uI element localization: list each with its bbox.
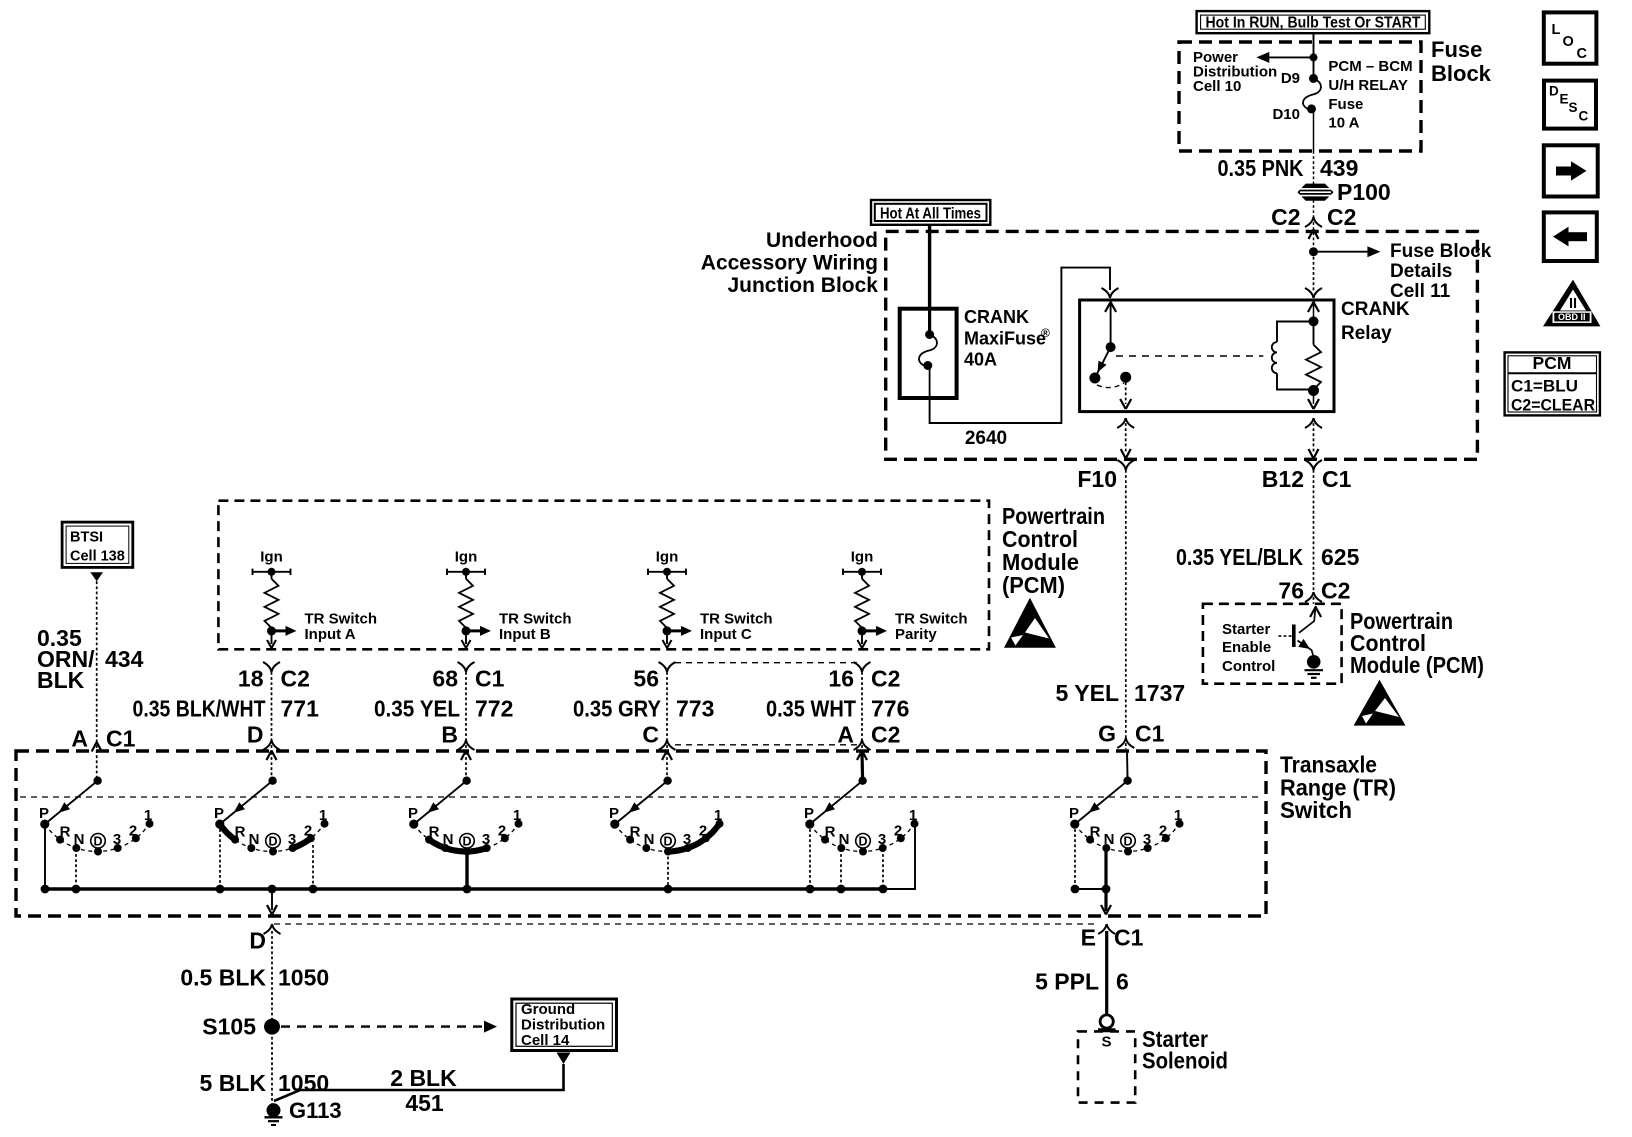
svg-text:C2: C2 bbox=[281, 666, 310, 692]
svg-text:Ign: Ign bbox=[455, 549, 478, 566]
label: Transaxle Range (TR) Switch bbox=[1280, 752, 1396, 824]
svg-text:R: R bbox=[235, 824, 246, 841]
svg-text:PCM – BCM: PCM – BCM bbox=[1328, 58, 1412, 75]
svg-text:Junction Block: Junction Block bbox=[727, 274, 878, 297]
svg-text:P: P bbox=[408, 805, 418, 822]
svg-text:N: N bbox=[644, 831, 655, 848]
svg-text:3: 3 bbox=[482, 831, 490, 848]
svg-text:Solenoid: Solenoid bbox=[1142, 1048, 1228, 1074]
label: Starter Enable Control bbox=[1222, 621, 1275, 675]
starter solenoid dashed box bbox=[1078, 1031, 1135, 1102]
dashed reference to Ground Distribution Cell 14 bbox=[281, 1021, 497, 1033]
svg-text:®: ® bbox=[1041, 326, 1050, 340]
svg-text:A: A bbox=[71, 726, 88, 752]
wire: 5 YEL 1737 F10 to G bbox=[1125, 470, 1127, 738]
relay: CRANK Relay box bbox=[1080, 300, 1334, 412]
label: Power Distribution Cell 10 bbox=[1193, 49, 1277, 95]
terminal letter D bbox=[247, 722, 264, 748]
svg-text:1: 1 bbox=[144, 807, 152, 824]
svg-text:451: 451 bbox=[405, 1090, 444, 1116]
label: 0.35 YEL/BLK 625 bbox=[1176, 544, 1360, 570]
PCM pull-up resistors dashed box bbox=[218, 501, 989, 650]
svg-text:D: D bbox=[663, 835, 672, 849]
pull-up resistor TR Switch Input Parity bbox=[843, 549, 887, 649]
label: TR Switch Input C bbox=[700, 611, 773, 644]
wire: relay switch output to F10 bbox=[1117, 377, 1134, 458]
svg-text:Enable: Enable bbox=[1222, 639, 1271, 656]
wire: 0.35 YEL/BLK 625 bbox=[1313, 470, 1315, 592]
label: Fuse Block Details Cell 11 bbox=[1390, 241, 1492, 302]
svg-text:Cell 10: Cell 10 bbox=[1193, 78, 1241, 95]
relay mechanical linkage (dashed) bbox=[1116, 355, 1263, 357]
label: 0.35 GRY 773 bbox=[573, 696, 714, 722]
svg-text:3: 3 bbox=[288, 831, 296, 848]
svg-text:773: 773 bbox=[676, 696, 714, 722]
svg-text:R: R bbox=[825, 824, 836, 841]
svg-text:N: N bbox=[74, 831, 85, 848]
icon: forward arrow bbox=[1544, 145, 1598, 196]
svg-text:A: A bbox=[837, 722, 854, 748]
TR switch wafer 3 (input B) bbox=[408, 777, 523, 894]
svg-text:2640: 2640 bbox=[965, 428, 1007, 449]
ground G113 bbox=[265, 1098, 342, 1125]
label: Powertrain Control Module (PCM) right bbox=[1350, 608, 1484, 678]
svg-text:N: N bbox=[249, 831, 260, 848]
TR switch wafer 6 (starter contact) bbox=[1069, 752, 1184, 915]
svg-text:1: 1 bbox=[319, 807, 327, 824]
svg-text:1: 1 bbox=[1174, 807, 1182, 824]
svg-text:0.35 YEL: 0.35 YEL bbox=[374, 696, 460, 722]
svg-text:F10: F10 bbox=[1077, 466, 1117, 492]
svg-text:D: D bbox=[249, 928, 266, 954]
svg-text:Fuse: Fuse bbox=[1328, 96, 1363, 113]
pin label 56 bbox=[633, 666, 659, 692]
svg-text:2: 2 bbox=[304, 823, 312, 840]
svg-text:MaxiFuse: MaxiFuse bbox=[964, 328, 1046, 348]
wire: circuit 2640 MaxiFuse to CRANK relay bbox=[930, 268, 1110, 423]
label: 0.35 ORN/BLK 434 bbox=[37, 625, 144, 693]
svg-text:C: C bbox=[1579, 109, 1589, 124]
svg-text:C2: C2 bbox=[1327, 204, 1356, 230]
svg-text:R: R bbox=[630, 824, 641, 841]
svg-text:2: 2 bbox=[699, 823, 707, 840]
svg-text:D: D bbox=[1123, 835, 1132, 849]
svg-text:N: N bbox=[443, 831, 454, 848]
label: Underhood Accessory Wiring Junction Block bbox=[701, 229, 879, 297]
wire: 5 PPL 6 to starter solenoid bbox=[1105, 931, 1108, 1015]
svg-text:C2: C2 bbox=[1271, 204, 1300, 230]
svg-text:CRANK: CRANK bbox=[1341, 299, 1410, 320]
svg-text:BLK: BLK bbox=[37, 667, 85, 693]
TR switch common bus bbox=[45, 887, 884, 891]
wire: 2 BLK 451 from ground distribution bbox=[274, 1053, 571, 1102]
terminal letter A bbox=[837, 722, 900, 748]
svg-text:0.35 GRY: 0.35 GRY bbox=[573, 696, 661, 722]
svg-text:Input B: Input B bbox=[499, 626, 551, 643]
wire: circuit 773 pin 56 to TR switch C bbox=[659, 662, 676, 781]
pull-up resistor TR Switch Input B bbox=[447, 549, 491, 649]
transistor Q1 starter enable driver bbox=[1279, 606, 1322, 657]
svg-text:Control: Control bbox=[1222, 658, 1275, 675]
transaxle range TR switch dashed box bbox=[16, 751, 1266, 916]
connector C2 / C2 at junction block bbox=[1271, 204, 1356, 252]
ESD warning triangle left bbox=[1004, 598, 1056, 648]
starter enable control dashed box bbox=[1203, 604, 1342, 684]
svg-text:C: C bbox=[1577, 46, 1588, 62]
svg-text:R: R bbox=[60, 824, 71, 841]
svg-text:3: 3 bbox=[1143, 831, 1151, 848]
svg-text:1: 1 bbox=[714, 807, 722, 824]
svg-text:Fuse: Fuse bbox=[1431, 37, 1482, 62]
svg-text:5 YEL: 5 YEL bbox=[1056, 680, 1120, 706]
label: PCM - BCM U/H RELAY Fuse 10 A bbox=[1328, 58, 1412, 132]
svg-text:1050: 1050 bbox=[278, 1070, 329, 1096]
TR switch wafer 2 (input D) bbox=[214, 777, 329, 894]
wire: hot feed to CRANK MaxiFuse bbox=[928, 225, 931, 309]
svg-text:II: II bbox=[1569, 296, 1577, 312]
svg-text:C2=CLEAR: C2=CLEAR bbox=[1511, 397, 1595, 415]
svg-text:L: L bbox=[1552, 22, 1561, 38]
svg-text:(PCM): (PCM) bbox=[1002, 572, 1065, 598]
svg-text:TR Switch: TR Switch bbox=[305, 611, 378, 628]
label: 0.35 YEL 772 bbox=[374, 696, 513, 722]
connector row dashed line below TR switch bbox=[274, 923, 1098, 925]
svg-text:D: D bbox=[247, 722, 264, 748]
pin label 68 C1 bbox=[432, 666, 504, 692]
svg-text:C1: C1 bbox=[475, 666, 505, 692]
icon: back arrow bbox=[1544, 212, 1597, 261]
BTSI Cell 138 box bbox=[62, 522, 133, 567]
wire: 5 BLK 1050 to ground bbox=[271, 1027, 273, 1104]
label: 0.35 BLK/WHT 771 bbox=[133, 696, 320, 722]
svg-text:Switch: Switch bbox=[1280, 797, 1352, 823]
wire: 0.5 BLK 1050 to S105 bbox=[271, 931, 273, 1027]
svg-text:2: 2 bbox=[894, 823, 902, 840]
svg-text:10 A: 10 A bbox=[1328, 115, 1359, 132]
svg-text:N: N bbox=[1104, 831, 1115, 848]
wire: 0.35 ORN/BLK 434 bbox=[96, 581, 98, 740]
label: Fuse Block bbox=[1431, 37, 1492, 86]
pin label 18 C2 bbox=[238, 666, 310, 692]
svg-text:P: P bbox=[1069, 805, 1079, 822]
svg-text:Input A: Input A bbox=[305, 626, 356, 643]
connector F10 bbox=[1077, 460, 1134, 492]
wire: P100 to junction block bbox=[1313, 200, 1315, 217]
arrow from BTSI bbox=[90, 572, 103, 581]
arrow to Power Distribution cell bbox=[1256, 52, 1317, 63]
svg-text:Ign: Ign bbox=[656, 549, 679, 566]
svg-text:TR Switch: TR Switch bbox=[700, 611, 773, 628]
svg-text:U/H RELAY: U/H RELAY bbox=[1328, 77, 1407, 94]
wire: circuit 772 pin 68 to TR switch B bbox=[458, 662, 475, 781]
svg-text:56: 56 bbox=[633, 666, 659, 692]
wire: circuit 776 pin 16 to TR switch A bbox=[854, 662, 871, 781]
svg-text:TR Switch: TR Switch bbox=[895, 611, 968, 628]
connector P100 bbox=[1299, 184, 1333, 200]
TR switch wafer 4 (input C) bbox=[609, 777, 724, 894]
svg-text:CRANK: CRANK bbox=[964, 307, 1029, 327]
svg-text:D: D bbox=[93, 835, 102, 849]
fuse: CRANK MaxiFuse 40A bbox=[900, 309, 957, 398]
TR switch wafer 1 (BTSI contact A) bbox=[39, 777, 154, 894]
svg-text:C1: C1 bbox=[106, 726, 136, 752]
svg-text:Cell 14: Cell 14 bbox=[521, 1032, 570, 1049]
svg-text:0.35 BLK/WHT: 0.35 BLK/WHT bbox=[133, 696, 266, 722]
label: CRANK Relay bbox=[1341, 299, 1410, 344]
svg-text:Cell 11: Cell 11 bbox=[1390, 281, 1451, 302]
svg-text:Ign: Ign bbox=[260, 549, 283, 566]
svg-text:6: 6 bbox=[1116, 969, 1129, 995]
wire: battery feed into fuse block bbox=[1313, 33, 1315, 78]
label: TR Switch Input A bbox=[305, 611, 378, 644]
svg-text:BTSI: BTSI bbox=[70, 530, 103, 546]
svg-text:P100: P100 bbox=[1337, 179, 1391, 205]
svg-text:3: 3 bbox=[683, 831, 691, 848]
wire: 0.35 PNK 439 fuse output bbox=[1313, 109, 1315, 151]
relay coil and resistor bbox=[1272, 288, 1322, 409]
label: 0.35 WHT 776 bbox=[766, 696, 909, 722]
svg-text:439: 439 bbox=[1320, 155, 1358, 181]
svg-text:Fuse Block: Fuse Block bbox=[1390, 241, 1492, 262]
svg-text:18: 18 bbox=[238, 666, 264, 692]
svg-text:R: R bbox=[429, 824, 440, 841]
svg-text:OBD II: OBD II bbox=[1558, 312, 1586, 322]
label: Starter Solenoid bbox=[1142, 1026, 1228, 1074]
svg-text:S: S bbox=[1101, 1034, 1111, 1051]
pin 76 C2 into PCM bbox=[1278, 578, 1350, 604]
svg-text:Hot In RUN, Bulb Test Or START: Hot In RUN, Bulb Test Or START bbox=[1206, 15, 1421, 32]
pin label 16 C2 bbox=[828, 666, 900, 692]
svg-text:P: P bbox=[214, 805, 224, 822]
underhood accessory wiring junction block dashed box bbox=[886, 231, 1478, 459]
svg-text:1: 1 bbox=[909, 807, 917, 824]
terminal letter B bbox=[441, 722, 458, 748]
svg-text:N: N bbox=[839, 831, 850, 848]
svg-text:16: 16 bbox=[828, 666, 854, 692]
svg-text:C1: C1 bbox=[1114, 925, 1144, 951]
svg-text:P: P bbox=[39, 805, 49, 822]
label: TR Switch Input Parity bbox=[895, 611, 968, 644]
svg-text:3: 3 bbox=[878, 831, 886, 848]
pull-up resistor TR Switch Input C bbox=[648, 549, 692, 649]
svg-text:Starter: Starter bbox=[1222, 621, 1271, 638]
terminal S of starter solenoid bbox=[1098, 1015, 1116, 1030]
svg-text:P: P bbox=[609, 805, 619, 822]
svg-text:1050: 1050 bbox=[278, 965, 329, 991]
wire: TR switch output D through case bbox=[267, 889, 277, 915]
ground inside PCM (emitter ground) bbox=[1305, 655, 1324, 678]
TR switch wafer 5 (parity) bbox=[804, 752, 919, 893]
svg-text:Details: Details bbox=[1390, 261, 1452, 282]
fuse block dashed box bbox=[1179, 42, 1421, 151]
svg-text:Input C: Input C bbox=[700, 626, 752, 643]
svg-text:D9: D9 bbox=[1281, 70, 1300, 87]
svg-text:Relay: Relay bbox=[1341, 323, 1392, 344]
svg-text:Cell 138: Cell 138 bbox=[70, 549, 125, 565]
svg-text:434: 434 bbox=[105, 646, 144, 672]
svg-text:PCM: PCM bbox=[1533, 353, 1572, 373]
label: 0.5 BLK 1050 bbox=[180, 965, 329, 991]
svg-text:D: D bbox=[268, 835, 277, 849]
svg-text:C2: C2 bbox=[871, 722, 900, 748]
ESD warning triangle right bbox=[1354, 680, 1406, 726]
svg-text:TR Switch: TR Switch bbox=[499, 611, 572, 628]
connector G C1 bbox=[1098, 721, 1165, 750]
svg-text:2 BLK: 2 BLK bbox=[390, 1065, 457, 1091]
fuse: PCM-BCM U/H RELAY Fuse 10 A bbox=[1303, 74, 1321, 114]
svg-text:0.35 WHT: 0.35 WHT bbox=[766, 696, 856, 722]
svg-text:R: R bbox=[1090, 824, 1101, 841]
svg-text:P: P bbox=[804, 805, 814, 822]
label: 0.35 PNK 439 bbox=[1218, 155, 1359, 181]
svg-text:O: O bbox=[1563, 34, 1574, 50]
svg-text:625: 625 bbox=[1321, 544, 1360, 570]
legend: PCM connector colors bbox=[1505, 352, 1600, 415]
svg-text:C1: C1 bbox=[1322, 466, 1352, 492]
svg-text:40A: 40A bbox=[964, 350, 997, 370]
svg-text:771: 771 bbox=[281, 696, 320, 722]
svg-text:2: 2 bbox=[1159, 823, 1167, 840]
svg-text:C1: C1 bbox=[1135, 721, 1165, 747]
connector A C1 at TR switch bbox=[71, 726, 135, 781]
svg-text:Accessory Wiring: Accessory Wiring bbox=[701, 252, 878, 275]
wire: junction to crank relay coil bbox=[1313, 252, 1315, 292]
svg-text:C2: C2 bbox=[871, 666, 900, 692]
splice S105 bbox=[202, 1014, 280, 1040]
svg-text:5 BLK: 5 BLK bbox=[200, 1070, 267, 1096]
label: Powertrain Control Module (PCM) left bbox=[1002, 503, 1105, 598]
connector E C1 below TR switch bbox=[1081, 924, 1144, 951]
connector D below TR switch bbox=[249, 924, 280, 954]
svg-text:D: D bbox=[858, 835, 867, 849]
svg-text:Parity: Parity bbox=[895, 626, 937, 643]
pull-up resistor TR Switch Input A bbox=[253, 549, 297, 649]
label: Ground Distribution Cell 14 bbox=[521, 1001, 605, 1049]
ground distribution cell 14 box bbox=[512, 999, 617, 1051]
svg-text:68: 68 bbox=[432, 666, 458, 692]
svg-text:2: 2 bbox=[129, 823, 137, 840]
svg-text:D: D bbox=[462, 835, 471, 849]
icon: OBD II triangle bbox=[1543, 280, 1600, 327]
aux dashed box between C and A pins bbox=[675, 663, 857, 745]
connector B12 C1 bbox=[1262, 460, 1352, 492]
svg-text:B12: B12 bbox=[1262, 466, 1304, 492]
svg-text:776: 776 bbox=[871, 696, 909, 722]
svg-text:0.35 YEL/BLK: 0.35 YEL/BLK bbox=[1176, 544, 1303, 570]
svg-text:1737: 1737 bbox=[1134, 680, 1185, 706]
label: 5 BLK 1050 bbox=[200, 1070, 330, 1096]
label: TR Switch Input B bbox=[499, 611, 572, 644]
svg-text:Underhood: Underhood bbox=[766, 229, 878, 252]
terminal letter C bbox=[642, 722, 659, 748]
icon: DESC bbox=[1544, 81, 1596, 129]
svg-text:E: E bbox=[1560, 92, 1569, 107]
svg-text:E: E bbox=[1081, 925, 1096, 951]
banner: Hot At All Times bbox=[871, 200, 990, 225]
svg-text:G113: G113 bbox=[289, 1098, 342, 1123]
svg-text:D10: D10 bbox=[1272, 106, 1300, 123]
svg-text:0.5 BLK: 0.5 BLK bbox=[180, 965, 266, 991]
arrow to Fuse Block Details Cell 11 bbox=[1309, 246, 1380, 257]
svg-text:5 PPL: 5 PPL bbox=[1035, 969, 1099, 995]
svg-text:Hot At All Times: Hot At All Times bbox=[880, 206, 981, 223]
svg-text:76: 76 bbox=[1278, 578, 1304, 604]
svg-text:D: D bbox=[1549, 84, 1559, 99]
svg-text:Block: Block bbox=[1431, 61, 1492, 86]
label: 2 BLK 451 bbox=[390, 1065, 457, 1116]
svg-text:C2: C2 bbox=[1321, 578, 1350, 604]
svg-text:0.35 PNK: 0.35 PNK bbox=[1218, 155, 1304, 181]
svg-text:B: B bbox=[441, 722, 458, 748]
svg-text:C: C bbox=[642, 722, 659, 748]
wire: circuit 771 pin 18 to TR switch D bbox=[263, 662, 280, 781]
svg-text:S105: S105 bbox=[202, 1014, 256, 1040]
wire: relay coil to B12 bbox=[1305, 418, 1322, 459]
svg-text:C1=BLU: C1=BLU bbox=[1511, 378, 1578, 396]
svg-text:2: 2 bbox=[498, 823, 506, 840]
TR switch internal divider (dashed) bbox=[20, 796, 1262, 798]
label: BTSI Cell 138 bbox=[70, 530, 125, 565]
svg-text:G: G bbox=[1098, 721, 1116, 747]
svg-text:772: 772 bbox=[475, 696, 513, 722]
relay switch arm bbox=[1089, 288, 1131, 388]
label: 5 PPL 6 bbox=[1035, 969, 1129, 995]
label: 5 YEL 1737 bbox=[1056, 680, 1186, 706]
svg-text:S: S bbox=[1569, 100, 1578, 115]
svg-text:1: 1 bbox=[513, 807, 521, 824]
svg-text:Module (PCM): Module (PCM) bbox=[1350, 652, 1484, 678]
svg-text:3: 3 bbox=[113, 831, 121, 848]
svg-text:Ign: Ign bbox=[851, 549, 874, 566]
icon: LOC bbox=[1544, 12, 1597, 63]
label: CRANK MaxiFuse 40A bbox=[964, 307, 1050, 370]
banner: Hot In RUN, Bulb Test Or START bbox=[1197, 11, 1430, 33]
